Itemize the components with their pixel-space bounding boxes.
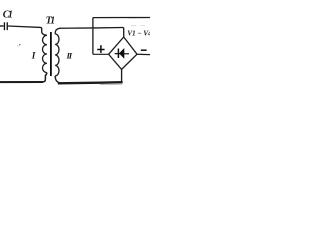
svg-text:I: I xyxy=(31,51,36,61)
svg-text:C1: C1 xyxy=(3,9,13,20)
svg-text:T1: T1 xyxy=(46,16,56,27)
svg-text:V1 − V4: V1 − V4 xyxy=(127,28,150,37)
svg-text:II: II xyxy=(66,51,73,61)
